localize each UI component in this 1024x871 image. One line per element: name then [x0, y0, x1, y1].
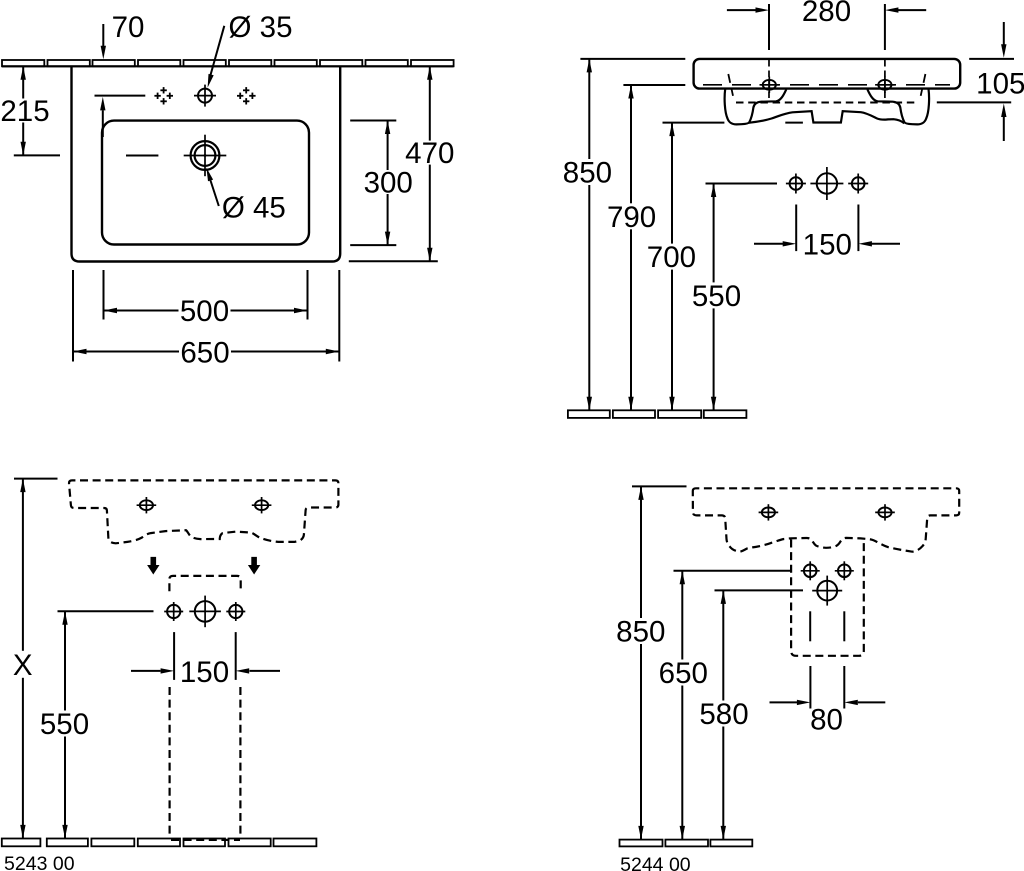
- left bolt hole (5243): [137, 497, 157, 513]
- dimension 150 (front view): [754, 205, 900, 262]
- svg-text:500: 500: [180, 295, 229, 328]
- svg-text:470: 470: [405, 137, 454, 170]
- reference line 650 (5244): [674, 570, 791, 572]
- svg-text:790: 790: [607, 201, 656, 234]
- dimension 580 (5244): [698, 590, 750, 839]
- reference line 580 (5244): [715, 589, 804, 591]
- dimension 790 (front): [606, 85, 658, 410]
- svg-text:215: 215: [0, 95, 49, 128]
- svg-text:5243 00: 5243 00: [4, 853, 75, 871]
- label Ø 35 with leader: [208, 11, 293, 88]
- faucet hole centerline: [95, 95, 146, 97]
- dimension 650: [73, 270, 339, 370]
- reference line 850 (5244): [632, 485, 687, 487]
- svg-text:650: 650: [180, 337, 229, 370]
- dimension 850 (front): [561, 59, 613, 410]
- faucet hole circle (Ø35): [194, 85, 216, 107]
- left overflow dash-dot: [728, 74, 733, 96]
- right optional hole cross: [237, 87, 256, 104]
- svg-text:300: 300: [364, 167, 413, 200]
- bottom profile with trap cover: [749, 111, 905, 123]
- svg-text:850: 850: [563, 157, 612, 190]
- dashed basin outline (5244): [693, 488, 959, 551]
- svg-text:5244 00: 5244 00: [620, 854, 691, 871]
- dimension 105: [937, 22, 1024, 141]
- dimension 850 (5244): [615, 486, 667, 839]
- wall line: [2, 65, 454, 67]
- left bolt hole (5244): [759, 504, 779, 520]
- fixing holes (5244): [801, 561, 854, 580]
- svg-text:80: 80: [810, 704, 843, 737]
- dimension 80 (5244): [770, 611, 886, 736]
- dimension 550 (front): [691, 184, 743, 411]
- svg-text:700: 700: [647, 241, 696, 274]
- reference line 550 (5243): [58, 610, 154, 612]
- tap hole group (5243): [164, 596, 245, 628]
- dimension 650 (5244): [657, 571, 709, 840]
- label Ø 45 with leader: [206, 168, 285, 225]
- dimension X: [10, 479, 36, 839]
- hidden underside dashed line: [736, 102, 917, 104]
- svg-text:Ø 45: Ø 45: [222, 192, 286, 225]
- floor hatch (5244): [620, 840, 753, 847]
- dimension 70: [100, 11, 144, 137]
- floor hatch (5243): [2, 839, 317, 847]
- reference line 700: [663, 122, 803, 124]
- svg-text:Ø 35: Ø 35: [229, 11, 293, 44]
- right bolt hole: [875, 77, 895, 93]
- drain centerline dash: [126, 155, 158, 157]
- tap hole group (front view): [786, 167, 868, 200]
- svg-text:580: 580: [699, 698, 748, 731]
- basin rim (front view): [694, 59, 961, 89]
- svg-text:850: 850: [616, 616, 665, 649]
- dimension 300: [350, 121, 413, 246]
- svg-text:650: 650: [659, 657, 708, 690]
- reference line X: [14, 478, 58, 480]
- left underside lobe: [725, 89, 787, 124]
- left optional hole cross: [154, 87, 173, 104]
- floor hatch (front view): [568, 410, 746, 418]
- dashed basin outline (5243): [69, 480, 338, 543]
- left bolt hole: [760, 77, 780, 93]
- wall hatch bars (top view): [2, 60, 454, 66]
- svg-text:550: 550: [40, 708, 89, 741]
- pedestal bottom dashed: [171, 839, 240, 841]
- reference line 850: [580, 58, 685, 60]
- pedestal sides dashed: [170, 687, 241, 838]
- svg-text:280: 280: [802, 0, 851, 28]
- article number 5243 00: [4, 853, 75, 871]
- basin inner bowl outline: [102, 121, 309, 245]
- basin outer outline (top view): [72, 66, 341, 261]
- bolt centerline: [703, 84, 950, 86]
- left mounting arrow (bold): [147, 557, 159, 575]
- dimension 700 (front): [645, 123, 697, 411]
- right bolt hole (5244): [875, 504, 895, 520]
- semi-pedestal shroud dashed: [791, 540, 864, 656]
- svg-text:70: 70: [112, 11, 145, 44]
- right underside lobe: [867, 89, 929, 124]
- svg-text:150: 150: [803, 229, 852, 262]
- svg-text:150: 150: [180, 656, 229, 689]
- dimension 150 (5243): [131, 632, 280, 689]
- svg-text:105: 105: [976, 67, 1024, 100]
- drain hole (5244): [812, 576, 842, 606]
- right bolt hole (5243): [252, 497, 272, 513]
- reference line 550 (front): [706, 183, 778, 185]
- reference line 790: [623, 84, 685, 86]
- dimension 215: [0, 66, 60, 155]
- dimension 280: [727, 0, 926, 99]
- dimension 470: [349, 66, 455, 261]
- svg-text:X: X: [13, 649, 33, 682]
- article number 5244 00: [620, 854, 691, 871]
- dimension 550 (5243): [39, 611, 91, 838]
- svg-text:550: 550: [692, 280, 741, 313]
- dimension 500: [104, 270, 308, 328]
- drain circle (Ø45): [184, 135, 227, 177]
- pedestal top dashed: [169, 576, 240, 591]
- right overflow dash-dot: [921, 74, 926, 96]
- right mounting arrow (bold): [248, 557, 260, 575]
